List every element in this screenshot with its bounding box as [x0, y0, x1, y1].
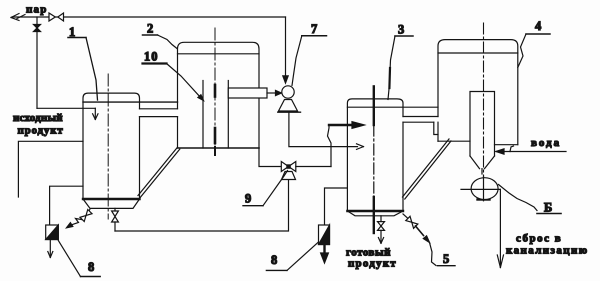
- heater 10 tubes: [203, 81, 228, 149]
- valve 9 line from vessel 2: [259, 148, 281, 167]
- vessel 3 centerline: [373, 86, 375, 233]
- ejector 7 steam inlet: [283, 17, 288, 83]
- ejector 7: [278, 86, 301, 112]
- valve on steam header: [49, 13, 64, 21]
- steam header line (пар): [12, 16, 286, 18]
- svg-text:5: 5: [443, 252, 449, 266]
- svg-text:сброс в: сброс в: [516, 233, 562, 245]
- filter 8a outlet arrow: [48, 240, 53, 258]
- drain direction arrow: [71, 219, 82, 226]
- circulation pipe vessel3-vessel4: [403, 139, 452, 199]
- svg-text:2: 2: [147, 22, 153, 36]
- steam branch valve (to vessel 1): [34, 17, 41, 108]
- vessel 4 centerline: [478, 23, 490, 201]
- label 8 (left): [58, 241, 100, 277]
- label 4: [518, 19, 550, 68]
- left drain line from vessel 1: [18, 141, 83, 197]
- sewer discharge line: [497, 189, 503, 267]
- svg-text:пар: пар: [26, 4, 48, 16]
- svg-text:4: 4: [535, 19, 542, 33]
- svg-text:продукт: продукт: [18, 125, 64, 137]
- vessel 2 centerline: [214, 28, 216, 155]
- label 9: [243, 171, 288, 206]
- drain header to valve 9 riser: [115, 180, 289, 231]
- vessel 1 centerline: [107, 74, 109, 219]
- label Б: [499, 185, 562, 215]
- svg-text:9: 9: [245, 192, 251, 206]
- label 7: [292, 22, 327, 86]
- line valve 9 to vessel 3 riser: [296, 125, 331, 167]
- filter 8a feed line: [50, 186, 83, 225]
- valve 9: [281, 162, 296, 180]
- svg-text:канализацию: канализацию: [506, 245, 589, 257]
- vessel 3 bottom drain valve (готовый продукт): [378, 216, 385, 244]
- svg-text:вода: вода: [531, 137, 561, 149]
- angled valve 5 at vessel 3 bottom right: [403, 214, 430, 243]
- vessel 1 shell: [83, 93, 178, 208]
- svg-text:8: 8: [271, 253, 277, 267]
- filter 8b: [319, 225, 330, 245]
- vapor tube to ejector: [228, 88, 267, 98]
- vapor duct vessel3-vessel4: [403, 117, 438, 135]
- svg-text:исходный: исходный: [13, 112, 63, 124]
- barometric funnel inside vessel 4: [470, 92, 495, 175]
- label 2: [143, 22, 178, 49]
- svg-text:3: 3: [398, 23, 404, 37]
- vessel 4 shell: [438, 40, 518, 145]
- barometric seal circle Б: [461, 176, 500, 201]
- svg-text:8: 8: [88, 260, 94, 274]
- label 5: [430, 243, 456, 267]
- steam line left break arrow: [11, 14, 25, 21]
- label 10: [143, 50, 204, 101]
- vessel 3 shell: [347, 99, 438, 216]
- feed line into vessel 1: [37, 108, 98, 119]
- filter 8b outlet arrow: [321, 245, 329, 264]
- filter 8a: [46, 225, 59, 240]
- vapor duct vessel1-vessel2: [140, 109, 178, 117]
- water inlet arrow (вода): [496, 146, 566, 154]
- label 3: [388, 23, 413, 100]
- svg-text:Б: Б: [544, 201, 552, 215]
- filter 8b feed stub from vessel 3: [325, 188, 348, 225]
- svg-text:7: 7: [311, 22, 317, 36]
- label 1: [68, 25, 98, 100]
- ejector discharge to vessel 3: [289, 112, 364, 149]
- svg-text:10: 10: [144, 50, 159, 64]
- angled drain valve at vessel 1 bottom left: [67, 209, 93, 228]
- thick inlet arrow into vessel 3: [329, 122, 364, 129]
- vessel 2 shell: [178, 42, 260, 148]
- label 8 (right): [266, 242, 318, 270]
- circulation pipe vessel1-vessel2: [138, 147, 180, 197]
- arrow tube to ejector: [267, 90, 282, 95]
- vessel 1 bottom drain valve: [112, 208, 119, 231]
- svg-text:продукт: продукт: [348, 258, 397, 270]
